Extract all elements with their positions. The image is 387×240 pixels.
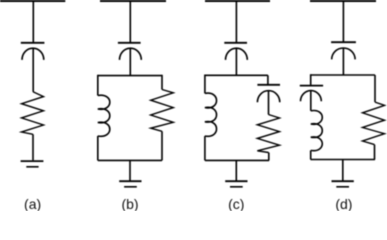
capacitor C (b) curved plate bbox=[120, 48, 142, 60]
wire: cap2 to resistor (c) bbox=[268, 91, 270, 115]
wire: left branch upper (d) bbox=[310, 74, 312, 85]
wire: right branch upper (d) bbox=[374, 75, 376, 102]
svg-text:(a): (a) bbox=[24, 196, 41, 211]
svg-text:(c): (c) bbox=[228, 196, 244, 211]
wire: cap to node (d) bbox=[342, 48, 344, 75]
wire: cap to node (b) bbox=[129, 48, 131, 76]
wire: left branch upper (c) bbox=[204, 75, 206, 94]
wire: ground stem (d) bbox=[342, 160, 344, 182]
wire: feed stub (b) bbox=[129, 1, 131, 42]
capacitor C2 (c) curved plate bbox=[257, 91, 279, 103]
wire: ground stem (b) bbox=[129, 160, 131, 181]
wire: right branch lower (c) bbox=[268, 153, 270, 161]
antenna feed bar (b) bbox=[100, 0, 166, 2]
capacitor C (a) curved plate bbox=[22, 48, 44, 60]
wire: top bar (b) bbox=[98, 75, 162, 77]
wire: right branch upper (b) bbox=[161, 75, 163, 90]
wire: left branch lower (c) bbox=[204, 136, 206, 160]
ground (d) bbox=[332, 180, 354, 182]
wire: cap2 to inductor (d) bbox=[310, 91, 312, 111]
resistor R (c) bbox=[257, 115, 279, 153]
wire: feed stub (c) bbox=[235, 1, 237, 42]
svg-text:(b): (b) bbox=[121, 196, 138, 211]
wire: left branch lower (b) bbox=[97, 136, 99, 160]
ground (c) bbox=[225, 180, 247, 182]
inductor L (d) bbox=[311, 111, 322, 151]
wire: ground stem (c) bbox=[235, 160, 237, 181]
antenna feed bar (d) bbox=[310, 0, 376, 2]
capacitor C (b) flat plate bbox=[118, 42, 141, 44]
capacitor C1 (d) flat plate bbox=[331, 41, 356, 43]
wire: feed stub (d) bbox=[342, 1, 344, 42]
capacitor C2 (d) curved plate bbox=[301, 91, 322, 102]
wire: right branch lower (d) bbox=[374, 145, 376, 160]
wire: feed stub (a) bbox=[32, 1, 34, 42]
antenna feed bar (a) bbox=[0, 0, 65, 2]
antenna feed bar (c) bbox=[205, 0, 270, 2]
capacitor C1 (c) curved plate bbox=[226, 48, 248, 60]
inductor L (c) bbox=[205, 93, 217, 136]
capacitor C2 (d) flat plate bbox=[300, 85, 323, 87]
resistor R (a) bbox=[22, 92, 44, 135]
wire: left branch lower (d) bbox=[310, 150, 312, 159]
capacitor C1 (c) flat plate bbox=[224, 42, 247, 44]
wire: top bar (d) bbox=[311, 74, 375, 76]
wire: right branch lower (b) bbox=[161, 131, 163, 160]
wire: cap to resistor (a) bbox=[32, 48, 34, 92]
svg-text:(d): (d) bbox=[335, 196, 352, 211]
resistor R (d) bbox=[363, 102, 385, 145]
ground (b) bbox=[119, 180, 141, 182]
wire: top bar (c) bbox=[205, 74, 268, 76]
wire: resistor to ground (a) bbox=[32, 134, 34, 160]
ground (a) bbox=[21, 160, 44, 162]
capacitor C2 (c) flat plate bbox=[257, 84, 280, 86]
wire: left branch upper (b) bbox=[97, 75, 99, 96]
wire: right branch upper (c) bbox=[267, 75, 269, 84]
wire: cap to node (c) bbox=[235, 48, 237, 75]
wire: bottom bar (c) bbox=[205, 159, 269, 161]
inductor L (b) bbox=[98, 95, 110, 136]
wire: bottom bar (d) bbox=[311, 159, 376, 161]
wire: bottom bar (b) bbox=[98, 159, 162, 161]
capacitor C (a) flat plate bbox=[21, 42, 45, 44]
capacitor C1 (d) curved plate bbox=[332, 48, 355, 59]
resistor R (b) bbox=[151, 90, 174, 132]
